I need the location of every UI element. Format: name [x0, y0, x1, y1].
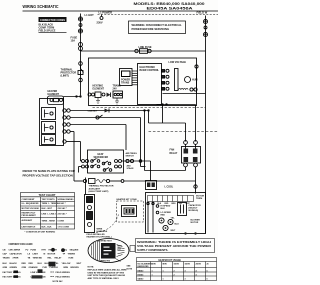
- connector codes legend lines: [39, 23, 56, 32]
- wire to relay: [157, 104, 196, 106]
- svg-text:NOTE 24V: NOTE 24V: [53, 280, 64, 283]
- svg-text:RELAY: RELAY: [55, 257, 62, 260]
- diode D1: [107, 93, 111, 97]
- svg-text:5: 5: [207, 279, 208, 281]
- svg-text:LIMIT: LIMIT: [33, 254, 39, 256]
- connector J1: [113, 91, 123, 98]
- test chart table: [21, 193, 75, 230]
- note paragraph: [88, 267, 128, 280]
- svg-text:AUXILIARY: AUXILIARY: [89, 187, 101, 190]
- svg-text:U.L. SEQUENCER: U.L. SEQUENCER: [22, 203, 40, 205]
- limit pairs and wires: [63, 109, 149, 133]
- svg-text:XFMR: XFMR: [13, 258, 19, 260]
- speed labels: [161, 206, 172, 217]
- junction dots: [161, 103, 163, 105]
- svg-text:REPLACE WIRE LEADS AND ALL WIR: REPLACE WIRE LEADS AND ALL WIRE: [88, 269, 128, 272]
- svg-text:CABINET: CABINET: [88, 110, 98, 113]
- svg-text:10KW: 10KW: [174, 264, 179, 266]
- svg-text:CB: CB: [3, 250, 7, 252]
- control enclosure box: [89, 58, 197, 106]
- wire L2 vertical feed: [205, 16, 207, 234]
- label fuse: [71, 37, 78, 43]
- terminal T1: [78, 17, 82, 21]
- small r mark: [130, 246, 135, 252]
- fan switch small box: [146, 181, 157, 190]
- svg-text:WIRING SCHEMATIC: WIRING SCHEMATIC: [23, 4, 59, 9]
- svg-text:NORMAL READING: NORMAL READING: [58, 198, 74, 201]
- breaker symbol: [81, 66, 84, 76]
- svg-text:BLACK: BLACK: [10, 262, 18, 265]
- svg-text:1: 1: [163, 270, 164, 272]
- svg-text:TERM 1 - TERM 2: TERM 1 - TERM 2: [42, 203, 59, 205]
- svg-text:3: 3: [185, 270, 186, 272]
- low volt components row: [93, 85, 122, 91]
- legend symbol blobs: [51, 248, 55, 252]
- svg-text:HARNESS: HARNESS: [97, 230, 108, 233]
- thermal protector label: [61, 69, 77, 78]
- logo emblem: [88, 239, 129, 263]
- warning disconnect box: [129, 21, 186, 34]
- wire L1 vertical feed: [80, 14, 82, 97]
- heater kit connector dashed box: [117, 198, 137, 201]
- chassis dashed: [149, 131, 219, 133]
- terminal: [79, 78, 83, 82]
- node FIELD WIRING label: [197, 11, 208, 15]
- svg-text:FIELD W: FIELD W: [197, 11, 208, 15]
- heat sequencer U2: [88, 150, 124, 173]
- junction dots feed: [75, 95, 77, 97]
- wire horizontal: [163, 93, 206, 95]
- wire drop to sequencer: [125, 125, 127, 151]
- svg-text:TERM - TERM: TERM - TERM: [42, 220, 55, 222]
- title rule: [23, 10, 219, 12]
- svg-text:ORANGE: ORANGE: [29, 266, 39, 269]
- svg-text:TEST POINTS: TEST POINTS: [42, 199, 56, 201]
- svg-text:2: 2: [174, 270, 175, 272]
- svg-text:YELLOW: YELLOW: [62, 263, 71, 265]
- svg-text:ED045: ED045: [138, 274, 144, 277]
- svg-text:AIR PRESS: AIR PRESS: [126, 152, 138, 155]
- svg-text:3: 3: [185, 279, 186, 281]
- svg-text:COMPONENT CODE LEGEND: COMPONENT CODE LEGEND: [9, 243, 33, 246]
- blower motor windings: [159, 218, 164, 223]
- svg-text:VOLTAGE PRESENT AROUND THE POW: VOLTAGE PRESENT AROUND THE POWER: [137, 244, 211, 248]
- svg-text:0 OHM: 0 OHM: [58, 220, 65, 222]
- svg-text:GRN: GRN: [3, 267, 8, 269]
- svg-text:5: 5: [207, 270, 208, 272]
- svg-text:BLK - BLK: BLK - BLK: [42, 226, 53, 228]
- terminal pair T4: [79, 43, 83, 47]
- svg-text:TRANS: TRANS: [121, 82, 130, 85]
- svg-text:PER ELEMENT: PER ELEMENT: [22, 215, 37, 217]
- control board U1: [138, 64, 162, 105]
- relay coil circle: [185, 77, 191, 83]
- svg-text:THERM: THERM: [68, 254, 76, 256]
- wire top right: [195, 65, 198, 68]
- color code row: [158, 203, 191, 205]
- terminal L1 POWER: [100, 17, 103, 20]
- svg-text:CONNECTOR CODES: CONNECTOR CODES: [40, 18, 65, 22]
- svg-text:BROWN: BROWN: [71, 267, 80, 269]
- coil winding: [179, 88, 189, 89]
- svg-text:EB040: EB040: [138, 269, 144, 272]
- svg-text:MODELS: EB040,000 SA040,000: MODELS: EB040,000 SA040,000: [134, 2, 205, 6]
- svg-text:WARNING: THERE IS EXTREMELY H: WARNING: THERE IS EXTREMELY HIGH: [137, 240, 211, 244]
- fuse F1: [135, 49, 138, 52]
- svg-text:BLK: BLK: [161, 208, 166, 210]
- bottom junctions: [184, 232, 186, 234]
- svg-text:25: 25: [207, 264, 209, 266]
- node L1 HOT label: [85, 13, 95, 17]
- svg-text:CAPACITOR: CAPACITOR: [10, 253, 23, 256]
- svg-text:REL: REL: [48, 258, 53, 260]
- svg-text:MOTOR: MOTOR: [191, 222, 199, 224]
- svg-text:FACTORY WIRING: FACTORY WIRING: [3, 271, 21, 274]
- svg-text:BRN: BRN: [172, 203, 177, 205]
- ground G1: [96, 98, 100, 104]
- svg-text:WHT: WHT: [77, 263, 82, 265]
- connector codes black box: [39, 17, 67, 22]
- svg-text:AUXILIARY: AUXILIARY: [22, 219, 33, 222]
- svg-text:RED: RED: [22, 263, 27, 265]
- svg-text:PUR: PUR: [43, 267, 48, 269]
- svg-text:APPROVED: APPROVED: [100, 260, 111, 263]
- relay drops: [185, 167, 187, 171]
- svg-text:RED: RED: [161, 215, 166, 217]
- svg-text:BLK: BLK: [3, 263, 8, 265]
- svg-text:5KW: 5KW: [152, 264, 156, 266]
- heater kit table: [137, 258, 217, 281]
- element E3: [42, 135, 56, 145]
- svg-text:BRN: BRN: [64, 267, 69, 269]
- label LINE FUSE: [139, 46, 152, 49]
- pins control board: [162, 69, 170, 90]
- terminal strip: [148, 196, 194, 202]
- svg-text:24 VAC *: 24 VAC *: [58, 202, 66, 205]
- label low voltage: [169, 61, 187, 64]
- wire L1 horizontal branch: [81, 50, 206, 52]
- fan relay K1: [184, 141, 188, 145]
- terminal pair: [190, 88, 193, 91]
- svg-text:TERM: TERM: [196, 198, 202, 200]
- legend underline: [39, 32, 67, 34]
- heater bank box: [40, 99, 64, 146]
- field wiring dashed boundary: [98, 14, 219, 16]
- svg-text:ED045A SA0456A: ED045A SA0456A: [147, 7, 194, 11]
- svg-text:HEATER KIT CONN: HEATER KIT CONN: [117, 198, 137, 201]
- heater fuse box: [48, 96, 64, 105]
- svg-text:(HIGH TEMP LIMIT): (HIGH TEMP LIMIT): [89, 191, 109, 193]
- svg-text:FIELD SPLICE: FIELD SPLICE: [39, 29, 56, 32]
- thermal aux line: [83, 179, 86, 182]
- svg-text:LINE 1 - LINE 2: LINE 1 - LINE 2: [42, 214, 57, 216]
- svg-text:WHT: WHT: [171, 230, 176, 232]
- dashed cable arc: [93, 215, 119, 233]
- svg-text:1 TO 5 OHM: 1 TO 5 OHM: [58, 226, 70, 228]
- svg-text:SEE: SEE: [127, 266, 132, 268]
- refer to nameplate text: [23, 169, 76, 178]
- element E1: [42, 108, 56, 120]
- svg-text:MOTOR VOLTAGE: MOTOR VOLTAGE: [22, 207, 40, 210]
- svg-text:FUSE: FUSE: [31, 250, 37, 252]
- svg-text:BLU: BLU: [175, 224, 180, 226]
- svg-text:CAPACITOR: CAPACITOR: [189, 204, 202, 207]
- svg-text:15KW: 15KW: [185, 264, 190, 266]
- svg-text:(LIMIT): (LIMIT): [61, 75, 69, 78]
- terminal: [79, 62, 83, 66]
- terminal T2: [79, 24, 82, 27]
- svg-text:FACTORY WIRING: FACTORY WIRING: [3, 276, 21, 279]
- lower connector strip: [85, 195, 95, 233]
- inline switch on wire: [96, 116, 99, 119]
- svg-text:USED IN THE FABRICATION OF THI: USED IN THE FABRICATION OF THIS: [88, 271, 125, 274]
- models text: [134, 2, 205, 11]
- svg-text:TEST CHART: TEST CHART: [39, 193, 56, 197]
- svg-text:230V: 230V: [97, 21, 103, 25]
- inline diode on wire: [105, 109, 110, 113]
- svg-text:L1 POWER: L1 POWER: [99, 11, 113, 15]
- terminal T3: [78, 29, 82, 33]
- element E2: [42, 122, 56, 134]
- transformer XFMR box: [120, 69, 133, 86]
- node L1 POWER label: [97, 11, 113, 25]
- capacitor: [178, 203, 187, 216]
- warning high voltage box: [136, 239, 215, 253]
- svg-text:HEATER VOLT: HEATER VOLT: [22, 211, 37, 214]
- transformer winding hatch: [132, 71, 138, 85]
- svg-text:PROPER VOLTAGE TAP SELECTION: PROPER VOLTAGE TAP SELECTION: [23, 174, 73, 178]
- svg-text:BLU: BLU: [38, 263, 43, 265]
- svg-text:TRANS: TRANS: [3, 257, 11, 260]
- svg-text:AND TYPE OF MATERIAL ONLY.: AND TYPE OF MATERIAL ONLY.: [88, 277, 120, 280]
- svg-text:CIRC BRKR: CIRC BRKR: [9, 250, 21, 252]
- ground G2: [115, 98, 119, 104]
- svg-text:BLK - WHT: BLK - WHT: [42, 208, 53, 210]
- terminal T6: [204, 26, 207, 29]
- legend wire samples: [14, 271, 55, 278]
- switch SW1: [88, 93, 91, 96]
- svg-text:HEATER KIT USAGE: HEATER KIT USAGE: [159, 259, 182, 262]
- svg-text:SA040: SA040: [138, 278, 144, 281]
- svg-text:L COOL: L COOL: [165, 187, 174, 189]
- svg-text:FIELD WIRING: FIELD WIRING: [56, 272, 71, 274]
- svg-text:BLWR CONTROL: BLWR CONTROL: [140, 69, 160, 72]
- wire bundle middle: [140, 118, 142, 167]
- svg-text:POWER BEFORE SERVICING: POWER BEFORE SERVICING: [132, 27, 170, 31]
- svg-text:1: 1: [163, 279, 164, 281]
- svg-text:LIMIT SWITCH: LIMIT SWITCH: [22, 226, 36, 228]
- svg-text:STAGE: STAGE: [127, 167, 135, 170]
- svg-text:THERMAL PROTECTOR: THERMAL PROTECTOR: [89, 185, 114, 188]
- svg-text:COMPONENT: COMPONENT: [22, 199, 36, 201]
- svg-text:HEAT: HEAT: [98, 153, 105, 156]
- wire B: [149, 122, 186, 124]
- svg-text:LOW VOLTAGE: LOW VOLTAGE: [169, 61, 187, 64]
- svg-text:2: 2: [174, 275, 175, 277]
- svg-text:WARNING: DISCONNECT ELECTRICAL: WARNING: DISCONNECT ELECTRICAL: [132, 23, 183, 27]
- svg-text:CERTIFIED TEST: CERTIFIED TEST: [97, 241, 113, 243]
- svg-text:GREEN: GREEN: [10, 267, 18, 269]
- svg-text:8KW: 8KW: [163, 264, 167, 266]
- svg-text:CAP: CAP: [3, 253, 8, 256]
- svg-text:ENERGIZED: ENERGIZED: [138, 266, 150, 268]
- cabinet dashed line: [93, 107, 206, 109]
- terminal T7: [203, 32, 207, 36]
- svg-text:SWITCH: SWITCH: [126, 156, 135, 158]
- svg-text:NOTE: NOTE: [127, 269, 133, 271]
- svg-text:PURPLE: PURPLE: [50, 267, 59, 269]
- terminal strip TB1: [175, 69, 179, 91]
- svg-text:MOTOR: MOTOR: [48, 254, 56, 256]
- svg-text:FIELD WIRING: FIELD WIRING: [56, 277, 71, 279]
- junction dots: [143, 109, 145, 111]
- sequencer feeds: [80, 142, 82, 162]
- terminal T5: [203, 19, 207, 23]
- svg-text:230 VAC *: 230 VAC *: [58, 207, 68, 210]
- svg-text:M: M: [44, 254, 46, 256]
- svg-text:SEQUEN: SEQUEN: [70, 250, 79, 252]
- svg-text:HTR: HTR: [42, 250, 47, 252]
- svg-text:FIELD INSTALLED: FIELD INSTALLED: [87, 233, 106, 236]
- svg-text:230 VAC *: 230 VAC *: [58, 213, 68, 216]
- svg-text:* CONDITION AT UNIT RUNNING: * CONDITION AT UNIT RUNNING: [25, 231, 56, 234]
- svg-text:20KW: 20KW: [196, 264, 201, 266]
- svg-text:ELEMENT: ELEMENT: [48, 93, 60, 96]
- svg-text:FU: FU: [26, 250, 29, 252]
- wire drop A: [162, 105, 164, 124]
- svg-text:24V: 24V: [113, 88, 118, 91]
- svg-text:ELEMENT: ELEMENT: [93, 88, 105, 91]
- svg-text:RED: RED: [29, 263, 34, 265]
- svg-text:MODELS): MODELS): [189, 210, 199, 212]
- blower box: [146, 193, 206, 234]
- svg-text:L1 HOT: L1 HOT: [85, 13, 95, 17]
- svg-text:TERM BD: TERM BD: [33, 258, 43, 260]
- svg-text:HUM: HUM: [69, 258, 74, 260]
- air switch: [122, 160, 151, 162]
- svg-text:SUPPLY COMPONENTS.: SUPPLY COMPONENTS.: [137, 248, 168, 252]
- heater element fuse label: [48, 90, 60, 96]
- wire stubs under strip: [147, 202, 149, 233]
- svg-text:REFER TO NAME PLATE RATING FOR: REFER TO NAME PLATE RATING FOR: [23, 169, 76, 173]
- svg-text:NOTE:: NOTE:: [88, 267, 95, 269]
- svg-text:1: 1: [152, 275, 153, 277]
- svg-text:TB: TB: [28, 258, 31, 260]
- svg-text:ORN: ORN: [22, 267, 27, 269]
- svg-text:RELAY: RELAY: [170, 152, 178, 155]
- svg-text:UNIT WITH THE EQUIVALENT GAUGE: UNIT WITH THE EQUIVALENT GAUGE: [88, 274, 126, 277]
- svg-text:1: 1: [152, 270, 153, 272]
- svg-text:15A: 15A: [71, 40, 76, 43]
- title WIRING SCHEMATIC: [23, 4, 59, 9]
